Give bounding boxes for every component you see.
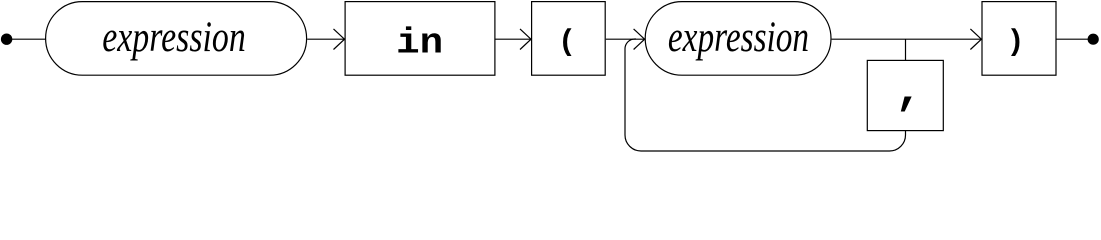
svg-text:): )	[1006, 26, 1024, 60]
svg-text:expression: expression	[102, 13, 246, 61]
svg-text:expression: expression	[668, 13, 809, 61]
svg-text:in: in	[396, 22, 443, 63]
svg-text:,: ,	[895, 66, 923, 118]
svg-text:(: (	[558, 26, 576, 60]
